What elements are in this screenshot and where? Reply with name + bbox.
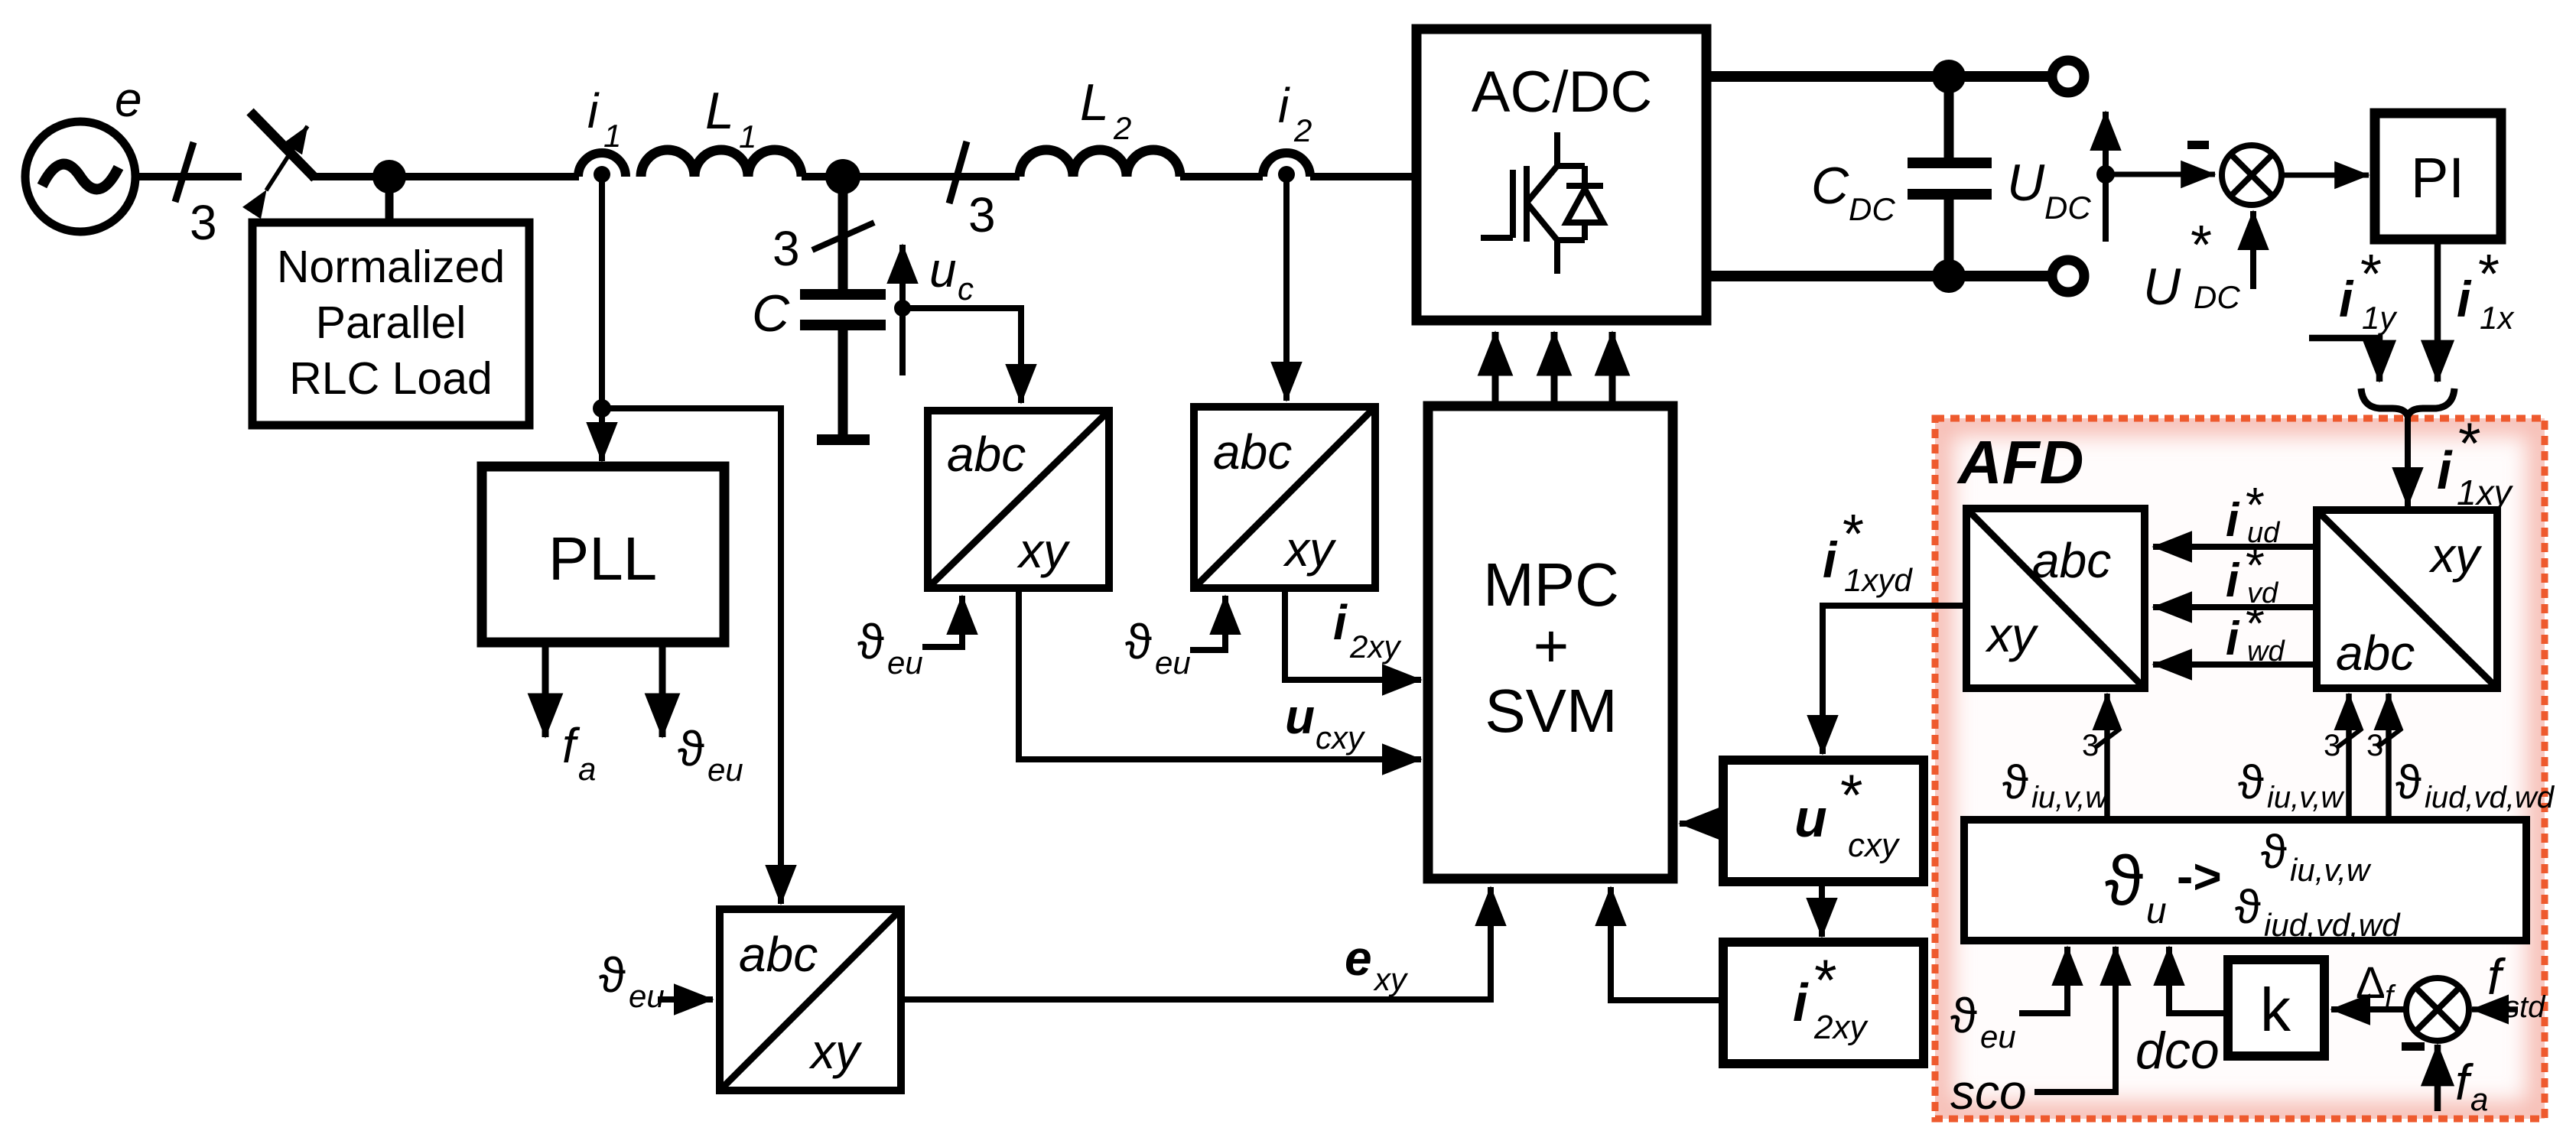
svg-text:SVM: SVM bbox=[1485, 677, 1617, 745]
node bbox=[593, 399, 611, 418]
abc/xy box3 (e) bbox=[720, 909, 901, 1090]
svg-text:AC/DC: AC/DC bbox=[1472, 60, 1652, 125]
svg-text:cxy: cxy bbox=[1316, 720, 1366, 756]
svg-text:a: a bbox=[2470, 1081, 2488, 1117]
svg-text:1xy: 1xy bbox=[2457, 473, 2514, 512]
label iwd* bbox=[2226, 596, 2285, 668]
svg-text:a: a bbox=[578, 751, 596, 787]
i2 sense wire bbox=[1283, 174, 1290, 401]
arrow thetau to abc->xy bbox=[2104, 694, 2110, 820]
brace stem into AFD bbox=[2405, 411, 2411, 506]
svg-text:e: e bbox=[115, 72, 142, 127]
theta eu into box2 bbox=[1125, 614, 1191, 681]
label Delta f bbox=[2356, 958, 2396, 1013]
ucxy* box bbox=[1723, 760, 1924, 882]
label UDC* bbox=[2143, 215, 2240, 316]
wire thetau to xy->abc 2 bbox=[2386, 694, 2392, 820]
svg-text:*: * bbox=[2191, 215, 2212, 276]
svg-text:i: i bbox=[2226, 613, 2240, 665]
fstd arrow bbox=[2472, 1006, 2518, 1012]
svg-text:k: k bbox=[2260, 976, 2291, 1044]
svg-text:i: i bbox=[2226, 494, 2240, 547]
k box bbox=[2228, 960, 2324, 1056]
svg-text:i: i bbox=[1793, 973, 1809, 1032]
svg-text:ϑ: ϑ bbox=[2105, 842, 2143, 920]
svg-text:2xy: 2xy bbox=[1813, 1009, 1869, 1046]
slash 3 left bbox=[2096, 729, 2120, 747]
svg-text:U: U bbox=[2007, 154, 2045, 212]
svg-text:U: U bbox=[2143, 258, 2181, 316]
box2 out to MPC (i2xy) bbox=[1285, 588, 1421, 680]
switch arrow bbox=[266, 126, 307, 190]
svg-text:iu,v,w: iu,v,w bbox=[2031, 781, 2109, 814]
i2xy* to MPC bottom bbox=[1611, 887, 1723, 1000]
svg-text:xy: xy bbox=[1283, 522, 1337, 577]
inductor L1 bbox=[641, 150, 802, 177]
svg-text:*: * bbox=[1840, 763, 1863, 828]
wire top bus to CDC bbox=[1944, 76, 1954, 163]
uc arrow bbox=[899, 245, 906, 308]
wire sum to PI bbox=[2282, 173, 2369, 178]
svg-text:std: std bbox=[2504, 990, 2546, 1024]
label iud* bbox=[2226, 477, 2281, 549]
xy->abc box (AFD right) bbox=[2317, 510, 2497, 688]
minus sign bbox=[2187, 141, 2209, 149]
RLC load box bbox=[252, 223, 529, 425]
abc/xy box1 (uc) bbox=[928, 411, 1109, 588]
svg-text:ϑ: ϑ bbox=[2395, 756, 2422, 809]
wire node to cap bbox=[838, 177, 848, 291]
svg-text:xy: xy bbox=[1373, 961, 1409, 997]
wire MPC to AC/DC gate 2 bbox=[1551, 332, 1558, 405]
svg-text:ϑ: ϑ bbox=[599, 947, 626, 1003]
svg-text:1xyd: 1xyd bbox=[1844, 562, 1913, 598]
current sensor i1 bbox=[578, 153, 626, 183]
svg-text:eu: eu bbox=[629, 978, 665, 1014]
switch blade bbox=[250, 112, 315, 178]
svg-text:i: i bbox=[2457, 271, 2472, 327]
3-phase slash 2 bbox=[949, 141, 967, 203]
svg-text:abc: abc bbox=[739, 927, 818, 982]
svg-text:3: 3 bbox=[2366, 729, 2383, 762]
svg-text:c: c bbox=[958, 271, 974, 307]
svg-text:*: * bbox=[1814, 948, 1837, 1013]
svg-text:3: 3 bbox=[190, 195, 217, 250]
wire MPC to AC/DC gate 1 bbox=[1492, 332, 1499, 405]
label fa bbox=[2455, 1054, 2488, 1117]
svg-text:ϑ: ϑ bbox=[2002, 756, 2028, 809]
box3 out exy to MPC bottom bbox=[901, 887, 1491, 999]
slash on cap wire bbox=[812, 223, 874, 250]
svg-text:i: i bbox=[1278, 78, 1290, 133]
svg-text:abc: abc bbox=[2336, 626, 2415, 681]
slash 3 mid bbox=[2337, 729, 2362, 747]
svg-text:1: 1 bbox=[603, 118, 621, 154]
svg-text:AFD: AFD bbox=[1956, 428, 2083, 496]
svg-text:u: u bbox=[1794, 788, 1827, 848]
i1y wire bbox=[2309, 338, 2379, 382]
svg-text:3: 3 bbox=[2324, 729, 2340, 762]
svg-text:1y: 1y bbox=[2362, 300, 2398, 336]
uc node bbox=[894, 300, 911, 317]
minus sign 2 bbox=[2402, 1042, 2425, 1051]
terminal bottom bbox=[2052, 260, 2084, 292]
svg-text:2: 2 bbox=[1113, 110, 1131, 146]
svg-text:L: L bbox=[1080, 73, 1109, 132]
AFD dashed border bbox=[1935, 418, 2545, 1119]
svg-text:abc: abc bbox=[947, 427, 1026, 482]
capacitor CDC bbox=[1908, 163, 1992, 194]
svg-text:xy: xy bbox=[1016, 523, 1071, 578]
current sensor i2 bbox=[1263, 153, 1310, 183]
wire switch to L1 bbox=[310, 173, 579, 180]
svg-text:Normalized: Normalized bbox=[277, 242, 505, 292]
svg-text:dco: dco bbox=[2135, 1022, 2220, 1080]
cap bottom bar bbox=[817, 434, 870, 445]
label L1 bbox=[705, 82, 756, 154]
svg-text:->: -> bbox=[2177, 849, 2222, 904]
label theta eu bbox=[678, 721, 743, 788]
3-phase slash bbox=[175, 142, 194, 202]
svg-text:i: i bbox=[2226, 554, 2240, 607]
wire DC bus top bbox=[1706, 71, 2056, 82]
uc sense stub bbox=[899, 308, 906, 375]
svg-text:Δ: Δ bbox=[2356, 958, 2386, 1008]
svg-text:iu,v,w: iu,v,w bbox=[2267, 781, 2345, 814]
wire thetau to xy->abc 1 bbox=[2346, 694, 2352, 820]
svg-text:*: * bbox=[1843, 504, 1864, 565]
wire i2 to AC/DC bbox=[1310, 173, 1413, 180]
slash 3 right bbox=[2377, 729, 2402, 747]
label i2 bbox=[1278, 78, 1312, 148]
label i1x* bbox=[2457, 244, 2515, 336]
svg-text:abc: abc bbox=[2032, 533, 2111, 588]
svg-text:i: i bbox=[2339, 271, 2354, 327]
wire ivd* arrow bbox=[2153, 604, 2317, 610]
svg-text:DC: DC bbox=[1849, 191, 1895, 227]
ucxy* to i2xy* arrow bbox=[1819, 882, 1825, 937]
label i1 bbox=[587, 83, 621, 154]
svg-text:ϑ: ϑ bbox=[1125, 614, 1152, 669]
AC source e bbox=[25, 122, 135, 232]
svg-text:iu,v,w: iu,v,w bbox=[2290, 852, 2372, 888]
svg-text:2xy: 2xy bbox=[1349, 629, 1402, 665]
svg-text:eu: eu bbox=[1980, 1019, 2016, 1055]
i1xyd* wire bbox=[1823, 606, 1966, 754]
sum2 to k arrow bbox=[2331, 1006, 2406, 1012]
svg-text:RLC Load: RLC Load bbox=[289, 353, 493, 404]
label fstd bbox=[2487, 948, 2546, 1024]
node after L1 bbox=[825, 159, 860, 194]
theta eu into box3 bbox=[599, 947, 665, 1014]
PLL out theta bbox=[659, 642, 666, 737]
svg-text:*: * bbox=[2360, 244, 2382, 305]
svg-text:DC: DC bbox=[2044, 190, 2091, 226]
svg-text:C: C bbox=[1811, 157, 1849, 215]
label i1y* bbox=[2339, 244, 2398, 336]
node bottom bus bbox=[1932, 259, 1966, 293]
svg-text:PI: PI bbox=[2411, 146, 2464, 210]
wire L1 to L2 bbox=[802, 173, 1020, 180]
label exy bbox=[1345, 931, 1409, 997]
label i1xyd* bbox=[1823, 504, 1913, 598]
AFD shaded region bbox=[1935, 418, 2545, 1119]
AC/DC converter box bbox=[1416, 29, 1706, 320]
svg-text:3: 3 bbox=[2082, 729, 2099, 762]
capacitor C plates bbox=[800, 289, 886, 300]
wire cap to bottom bar bbox=[838, 325, 848, 436]
arrow into PLL bbox=[599, 408, 605, 461]
MPC+SVM box bbox=[1428, 406, 1673, 879]
svg-text:xy: xy bbox=[2428, 528, 2483, 583]
label theta iu,v,w right bbox=[2238, 756, 2345, 814]
dco input from k bbox=[2169, 947, 2228, 1013]
wire MPC to AC/DC gate 3 bbox=[1609, 332, 1616, 405]
svg-text:sco: sco bbox=[1950, 1064, 2027, 1120]
brace bbox=[2361, 388, 2454, 416]
svg-text:i: i bbox=[1823, 531, 1838, 588]
svg-text:u: u bbox=[2146, 891, 2167, 931]
svg-text:+: + bbox=[1534, 612, 1569, 680]
svg-text:ϑ: ϑ bbox=[2261, 826, 2287, 879]
svg-text:MPC: MPC bbox=[1483, 551, 1619, 619]
UDC sense arrow bbox=[2103, 112, 2109, 242]
i2xy* box bbox=[1723, 942, 1924, 1064]
svg-text:ϑ: ϑ bbox=[857, 614, 884, 669]
AFD block background bbox=[1935, 418, 2545, 1119]
label uc bbox=[929, 242, 974, 307]
svg-text:i: i bbox=[1333, 595, 1348, 650]
inductor L2 bbox=[1020, 150, 1180, 177]
terminal top bbox=[2052, 60, 2084, 93]
svg-text:PLL: PLL bbox=[548, 525, 657, 593]
summing junction 2 bbox=[2406, 978, 2469, 1041]
summing junction 1 bbox=[2222, 145, 2282, 205]
svg-text:ϑ: ϑ bbox=[2238, 756, 2264, 809]
PLL out fa bbox=[542, 642, 549, 737]
theta eu into box1 bbox=[857, 614, 923, 681]
svg-text:u: u bbox=[1285, 689, 1315, 744]
fa arrow into sum2 bbox=[2435, 1045, 2441, 1111]
svg-text:2: 2 bbox=[1293, 112, 1312, 148]
wire iud* arrow bbox=[2153, 544, 2317, 550]
svg-text:iud,vd,wd: iud,vd,wd bbox=[2425, 781, 2555, 814]
abc->xy box (AFD left) bbox=[1966, 509, 2145, 688]
svg-text:1x: 1x bbox=[2480, 300, 2515, 336]
UDC* arrow into sum bbox=[2250, 211, 2256, 289]
wire L2 to sensor i2 bbox=[1180, 173, 1263, 180]
theta_u box text bbox=[2105, 826, 2401, 943]
label ivd* bbox=[2226, 538, 2279, 609]
box1 out to MPC (ucxy) bbox=[1019, 588, 1421, 759]
svg-text:Parallel: Parallel bbox=[316, 297, 467, 348]
svg-text:i: i bbox=[2437, 440, 2453, 500]
i1 sense wire down bbox=[599, 174, 605, 408]
wire uc to abc/xy box1 bbox=[903, 308, 1021, 403]
wire source to switch bbox=[135, 173, 242, 180]
svg-text:xy: xy bbox=[808, 1024, 863, 1079]
PI output wire i1x bbox=[2435, 239, 2441, 382]
svg-text:ϑ: ϑ bbox=[678, 721, 704, 776]
label i2xy bbox=[1333, 595, 1402, 665]
wire CDC to bottom bus bbox=[1944, 194, 1954, 276]
UDC node bbox=[2096, 165, 2115, 184]
IGBT symbol bbox=[1481, 132, 1603, 274]
wire UDC to sum bbox=[2106, 172, 2215, 177]
theta eu input bbox=[1950, 988, 2016, 1055]
svg-text:abc: abc bbox=[1213, 424, 1292, 479]
svg-text:3: 3 bbox=[772, 221, 800, 276]
wire iwd* arrow bbox=[2153, 661, 2317, 668]
svg-text:C: C bbox=[752, 284, 790, 343]
svg-text:DC: DC bbox=[2194, 279, 2240, 315]
svg-text:*: * bbox=[2478, 244, 2500, 305]
wire to RLC load bbox=[385, 177, 394, 223]
label CDC bbox=[1811, 157, 1895, 227]
label theta iud,vd,wd bbox=[2395, 756, 2555, 814]
node top bus bbox=[1932, 60, 1966, 93]
svg-text:*: * bbox=[2458, 411, 2481, 476]
svg-text:eu: eu bbox=[1155, 645, 1191, 681]
PI box bbox=[2375, 113, 2501, 239]
label UDC bbox=[2007, 154, 2091, 226]
svg-text:eu: eu bbox=[887, 645, 923, 681]
wire DC bus bottom bbox=[1706, 271, 2056, 281]
label L2 bbox=[1080, 73, 1131, 146]
svg-text:iud,vd,wd: iud,vd,wd bbox=[2264, 907, 2401, 943]
svg-text:L: L bbox=[705, 82, 734, 140]
svg-text:3: 3 bbox=[968, 187, 996, 242]
svg-text:i: i bbox=[587, 83, 600, 138]
svg-text:u: u bbox=[929, 242, 957, 297]
svg-text:cxy: cxy bbox=[1848, 827, 1901, 864]
RLC load text bbox=[277, 242, 505, 404]
theta_u mapping box bbox=[1964, 820, 2526, 941]
wire node to exy column bbox=[602, 408, 781, 904]
svg-text:ϑ: ϑ bbox=[2235, 881, 2261, 934]
svg-text:xy: xy bbox=[1985, 607, 2039, 662]
label fa bbox=[562, 718, 596, 787]
svg-text:wd: wd bbox=[2247, 635, 2285, 668]
label ucxy bbox=[1285, 689, 1366, 756]
label theta iu,v,w left bbox=[2002, 756, 2109, 814]
PLL box bbox=[482, 466, 724, 642]
svg-text:ϑ: ϑ bbox=[1950, 988, 1977, 1043]
node at RLC tap bbox=[372, 160, 406, 193]
svg-text:1: 1 bbox=[739, 119, 756, 154]
label i1xy* bbox=[2437, 411, 2514, 512]
svg-text:eu: eu bbox=[707, 752, 743, 788]
ucxy* to MPC arrow bbox=[1680, 821, 1723, 827]
svg-text:e: e bbox=[1345, 931, 1372, 986]
